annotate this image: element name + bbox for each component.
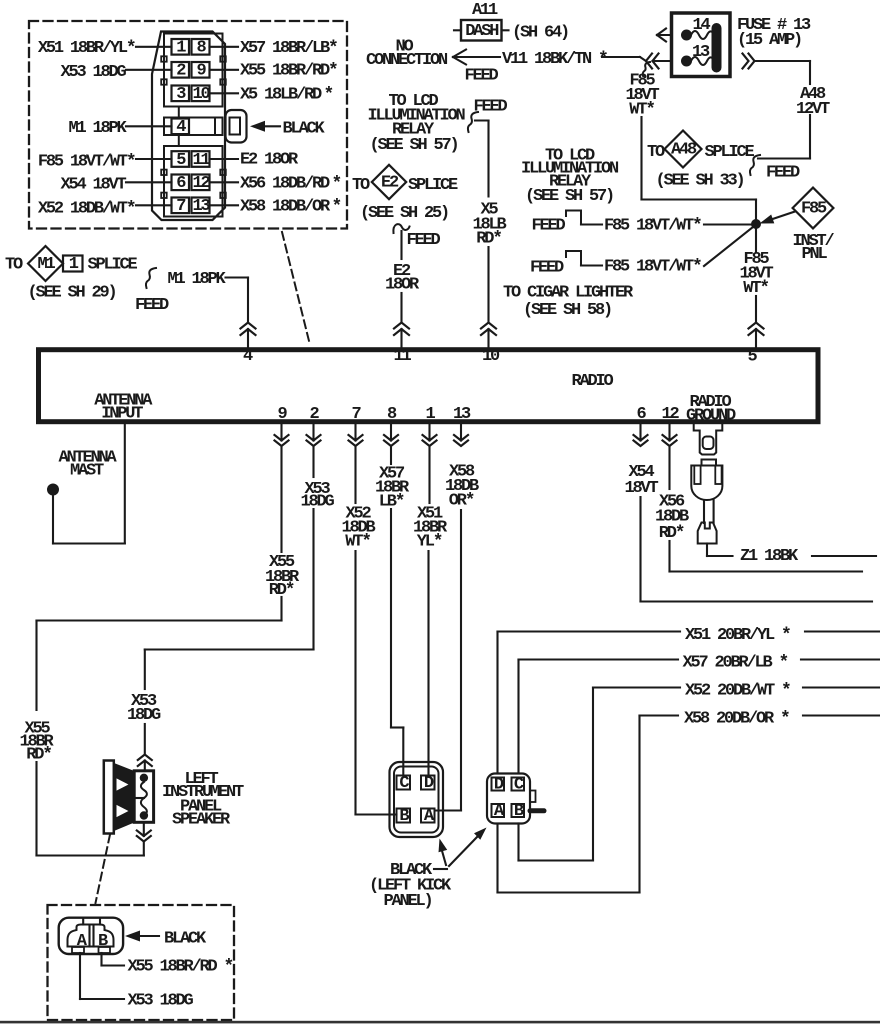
svg-text:10: 10 <box>482 347 500 366</box>
svg-text:FEED: FEED <box>530 259 564 278</box>
svg-text:18OR: 18OR <box>385 275 420 294</box>
svg-text:TO: TO <box>647 143 665 162</box>
svg-text:FEED: FEED <box>766 163 800 182</box>
svg-text:F85 18VT/WT*: F85 18VT/WT* <box>604 217 701 237</box>
svg-text:SPEAKER: SPEAKER <box>172 810 231 829</box>
svg-text:A11: A11 <box>472 1 498 20</box>
svg-text:FEED: FEED <box>474 98 508 117</box>
svg-text:WT*: WT* <box>345 533 370 553</box>
svg-text:FEED: FEED <box>465 67 499 86</box>
svg-text:INPUT: INPUT <box>101 404 143 423</box>
svg-text:18DG: 18DG <box>127 706 161 725</box>
svg-text:OR*: OR* <box>449 491 474 511</box>
svg-text:12: 12 <box>192 174 210 193</box>
svg-text:10: 10 <box>192 85 210 104</box>
svg-text:BLACK: BLACK <box>164 930 207 949</box>
svg-text:MAST: MAST <box>70 462 104 481</box>
svg-text:12: 12 <box>661 405 679 424</box>
svg-text:F85 18VT/WT*: F85 18VT/WT* <box>604 258 701 278</box>
svg-text:SPLICE: SPLICE <box>408 176 458 195</box>
svg-text:X53 18DG: X53 18DG <box>128 992 194 1011</box>
svg-text:X58 18DB/OR*: X58 18DB/OR* <box>240 197 341 217</box>
svg-text:X51 18BR/YL*: X51 18BR/YL* <box>38 39 135 59</box>
svg-text:RADIO: RADIO <box>571 372 613 391</box>
svg-text:FEED: FEED <box>532 217 566 236</box>
svg-text:(SEE SH 25): (SEE SH 25) <box>360 204 448 223</box>
svg-text:RD*: RD* <box>26 746 51 766</box>
svg-text:(SEE SH 58): (SEE SH 58) <box>523 301 611 320</box>
svg-text:(SEE SH 57): (SEE SH 57) <box>525 187 613 206</box>
svg-text:(SEE SH 57): (SEE SH 57) <box>369 136 457 155</box>
svg-text:V11 18BK/TN *: V11 18BK/TN * <box>502 50 607 70</box>
svg-text:13: 13 <box>453 405 471 424</box>
svg-text:SPLICE: SPLICE <box>88 256 138 275</box>
svg-text:X51 20BR/YL *: X51 20BR/YL * <box>685 626 790 646</box>
svg-text:X52 18DB/WT*: X52 18DB/WT* <box>38 199 135 219</box>
svg-text:TO: TO <box>5 256 23 275</box>
svg-text:FEED: FEED <box>135 296 169 315</box>
svg-text:Z1 18BK: Z1 18BK <box>740 547 799 566</box>
svg-text:F85 18VT/WT*: F85 18VT/WT* <box>38 152 135 172</box>
svg-text:F85: F85 <box>801 200 827 219</box>
svg-text:X53 18DG: X53 18DG <box>60 63 126 82</box>
svg-text:13: 13 <box>192 197 210 216</box>
svg-text:BLACK: BLACK <box>283 119 326 138</box>
svg-text:X56 18DB/RD*: X56 18DB/RD* <box>240 174 341 194</box>
svg-text:(SEE SH 29): (SEE SH 29) <box>28 284 116 303</box>
svg-text:12VT: 12VT <box>796 100 830 119</box>
svg-text:X5 18LB/RD*: X5 18LB/RD* <box>240 85 333 105</box>
svg-text:(15 AMP): (15 AMP) <box>737 31 801 50</box>
svg-text:(SEE SH 33): (SEE SH 33) <box>655 172 743 191</box>
svg-text:PANEL): PANEL) <box>384 892 432 911</box>
svg-text:X57 20BR/LB *: X57 20BR/LB * <box>683 654 788 674</box>
svg-text:(SH 64): (SH 64) <box>512 24 568 43</box>
svg-text:E2: E2 <box>381 174 399 193</box>
svg-text:X58 20DB/OR *: X58 20DB/OR * <box>684 710 789 730</box>
svg-text:11: 11 <box>192 151 210 170</box>
svg-text:E2 18OR: E2 18OR <box>240 151 299 170</box>
svg-text:PNL: PNL <box>801 245 827 264</box>
svg-text:M1 18PK: M1 18PK <box>168 270 227 289</box>
svg-text:18VT: 18VT <box>624 479 658 498</box>
svg-text:SPLICE: SPLICE <box>705 143 755 162</box>
svg-text:11: 11 <box>393 347 411 366</box>
svg-text:TO CIGAR LIGHTER: TO CIGAR LIGHTER <box>503 283 634 302</box>
svg-text:X52 20DB/WT *: X52 20DB/WT * <box>685 682 790 702</box>
svg-text:13: 13 <box>692 43 710 62</box>
svg-text:RD*: RD* <box>659 524 684 544</box>
svg-text:TO: TO <box>352 176 370 195</box>
svg-text:GROUND: GROUND <box>686 407 736 426</box>
svg-text:DASH: DASH <box>465 22 499 41</box>
svg-text:X57 18BR/LB*: X57 18BR/LB* <box>240 39 337 59</box>
svg-text:YL*: YL* <box>417 533 442 553</box>
svg-text:CONNECTION: CONNECTION <box>366 51 448 70</box>
svg-text:X54 18VT: X54 18VT <box>60 175 126 194</box>
svg-text:FEED: FEED <box>407 231 441 250</box>
svg-text:A48: A48 <box>671 141 697 160</box>
svg-text:X55 18BR/RD*: X55 18BR/RD* <box>240 62 337 82</box>
svg-text:18DG: 18DG <box>300 492 334 511</box>
svg-text:M1 18PK: M1 18PK <box>68 119 127 138</box>
svg-text:14: 14 <box>692 16 710 35</box>
svg-text:X55 18BR/RD *: X55 18BR/RD * <box>128 958 233 978</box>
svg-text:M1: M1 <box>37 255 55 274</box>
